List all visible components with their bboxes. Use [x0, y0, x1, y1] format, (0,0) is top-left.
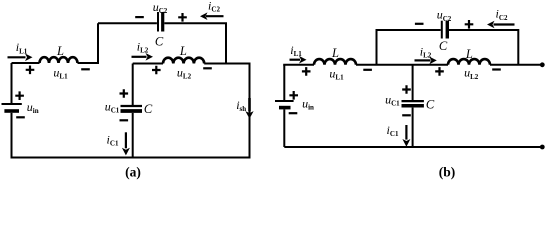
svg-text:C: C — [155, 35, 164, 49]
svg-text:ish: ish — [236, 98, 246, 113]
svg-text:uC2: uC2 — [153, 0, 168, 15]
svg-text:L: L — [331, 46, 339, 60]
svg-text:iC1: iC1 — [107, 133, 119, 148]
svg-text:iC1: iC1 — [387, 123, 399, 138]
svg-text:iC2: iC2 — [208, 0, 220, 14]
svg-text:uC1: uC1 — [385, 92, 400, 107]
svg-text:uin: uin — [302, 96, 314, 111]
svg-text:uL2: uL2 — [177, 65, 192, 80]
svg-text:C: C — [439, 39, 448, 53]
svg-text:iL1: iL1 — [290, 43, 302, 58]
svg-text:iL1: iL1 — [16, 40, 28, 55]
svg-text:L: L — [56, 44, 64, 58]
svg-text:iC2: iC2 — [496, 7, 508, 22]
svg-text:(a): (a) — [125, 165, 141, 180]
svg-text:uC1: uC1 — [105, 99, 120, 114]
svg-text:C: C — [426, 98, 435, 112]
svg-text:uL1: uL1 — [53, 66, 68, 81]
svg-text:(b): (b) — [439, 165, 456, 180]
svg-text:uL1: uL1 — [329, 66, 344, 81]
svg-text:L: L — [465, 47, 473, 61]
svg-text:iL2: iL2 — [137, 40, 149, 55]
svg-text:iL2: iL2 — [420, 45, 432, 60]
svg-text:uL2: uL2 — [464, 66, 479, 81]
svg-text:L: L — [179, 44, 187, 58]
svg-text:C: C — [144, 102, 153, 116]
svg-text:uC2: uC2 — [437, 8, 452, 23]
svg-text:uin: uin — [27, 100, 39, 115]
